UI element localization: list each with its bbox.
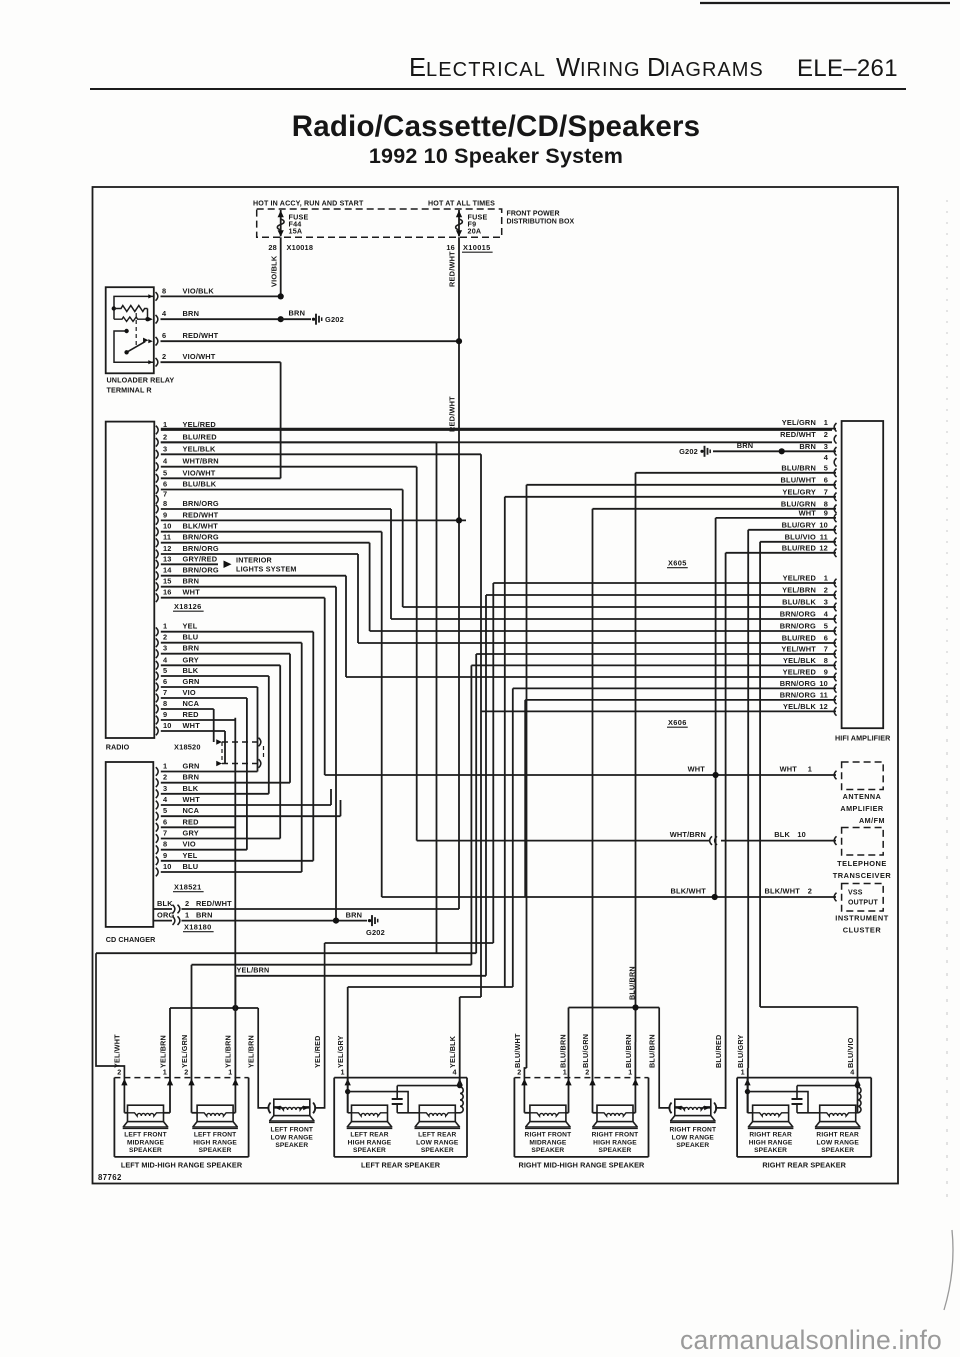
svg-text:SPEAKER: SPEAKER bbox=[275, 1142, 308, 1149]
svg-text:15A: 15A bbox=[289, 227, 303, 236]
svg-text:1: 1 bbox=[741, 1068, 745, 1077]
svg-text:2: 2 bbox=[163, 432, 167, 441]
svg-text:BLU/BRN: BLU/BRN bbox=[558, 1034, 567, 1068]
svg-text:12: 12 bbox=[163, 544, 172, 553]
svg-text:X18521: X18521 bbox=[174, 883, 202, 892]
svg-text:RED: RED bbox=[183, 710, 200, 719]
svg-text:5: 5 bbox=[824, 463, 828, 472]
svg-text:CD CHANGER: CD CHANGER bbox=[106, 935, 156, 944]
svg-text:RIGHT FRONT: RIGHT FRONT bbox=[669, 1127, 716, 1134]
svg-text:ELE–261: ELE–261 bbox=[797, 55, 898, 82]
svg-text:NCA: NCA bbox=[183, 806, 200, 815]
svg-text:4: 4 bbox=[452, 1068, 456, 1077]
svg-text:WHT: WHT bbox=[183, 795, 201, 804]
svg-text:YEL/BLK: YEL/BLK bbox=[448, 1035, 457, 1068]
svg-text:5: 5 bbox=[824, 622, 828, 631]
svg-text:9: 9 bbox=[163, 510, 167, 519]
svg-text:BRN/ORG: BRN/ORG bbox=[183, 499, 219, 508]
svg-text:IAGRAMS: IAGRAMS bbox=[665, 59, 764, 81]
svg-text:VSS: VSS bbox=[848, 890, 863, 897]
svg-text:LOW RANGE: LOW RANGE bbox=[672, 1134, 715, 1141]
svg-text:16: 16 bbox=[446, 243, 455, 252]
svg-text:RADIO: RADIO bbox=[106, 743, 130, 752]
svg-text:1: 1 bbox=[185, 911, 189, 920]
svg-text:YEL/GRN: YEL/GRN bbox=[782, 418, 816, 427]
svg-text:YEL/RED: YEL/RED bbox=[183, 420, 217, 429]
svg-text:BLK/WHT: BLK/WHT bbox=[765, 887, 801, 896]
svg-text:carmanualsonline.info: carmanualsonline.info bbox=[680, 1325, 942, 1355]
svg-text:BLU/BRN: BLU/BRN bbox=[628, 966, 637, 1000]
svg-text:3: 3 bbox=[163, 644, 167, 653]
svg-text:LOW RANGE: LOW RANGE bbox=[817, 1139, 860, 1146]
svg-text:VIO: VIO bbox=[183, 688, 196, 697]
svg-text:WHT: WHT bbox=[183, 721, 201, 730]
svg-text:SPEAKER: SPEAKER bbox=[676, 1142, 709, 1149]
svg-text:9: 9 bbox=[163, 851, 167, 860]
svg-text:DISTRIBUTION BOX: DISTRIBUTION BOX bbox=[507, 219, 575, 226]
svg-text:X605: X605 bbox=[668, 559, 687, 568]
svg-text:1: 1 bbox=[163, 1068, 167, 1077]
svg-text:LEFT REAR: LEFT REAR bbox=[418, 1131, 456, 1138]
svg-text:BLU/GRN: BLU/GRN bbox=[581, 1034, 590, 1068]
svg-text:YEL/GRY: YEL/GRY bbox=[782, 487, 816, 496]
svg-text:14: 14 bbox=[163, 566, 172, 575]
svg-text:4: 4 bbox=[824, 610, 829, 619]
svg-text:SPEAKER: SPEAKER bbox=[199, 1147, 232, 1154]
svg-text:TERMINAL R: TERMINAL R bbox=[107, 386, 153, 395]
svg-text:3: 3 bbox=[824, 598, 828, 607]
svg-text:YEL/BRN: YEL/BRN bbox=[237, 966, 270, 975]
svg-text:13: 13 bbox=[163, 554, 172, 563]
svg-text:WHT/BRN: WHT/BRN bbox=[183, 457, 219, 466]
svg-text:HIGH RANGE: HIGH RANGE bbox=[593, 1139, 637, 1146]
svg-text:X18520: X18520 bbox=[174, 743, 201, 752]
svg-text:10: 10 bbox=[797, 830, 806, 839]
svg-text:BRN: BRN bbox=[183, 309, 200, 318]
svg-text:BLU/WHT: BLU/WHT bbox=[781, 475, 817, 484]
svg-text:9: 9 bbox=[163, 710, 167, 719]
svg-text:HOT IN ACCY, RUN AND START: HOT IN ACCY, RUN AND START bbox=[253, 200, 364, 208]
svg-text:BLU/BRN: BLU/BRN bbox=[624, 1034, 633, 1068]
svg-text:9: 9 bbox=[824, 508, 828, 517]
svg-text:VIO/BLK: VIO/BLK bbox=[270, 255, 279, 287]
svg-text:X10018: X10018 bbox=[287, 243, 314, 252]
svg-text:YEL/RED: YEL/RED bbox=[783, 574, 817, 583]
svg-text:2: 2 bbox=[824, 586, 828, 595]
svg-text:UNLOADER RELAY: UNLOADER RELAY bbox=[107, 376, 175, 385]
svg-text:HIGH RANGE: HIGH RANGE bbox=[193, 1139, 237, 1146]
svg-text:BRN/ORG: BRN/ORG bbox=[780, 690, 816, 699]
svg-text:CLUSTER: CLUSTER bbox=[843, 926, 882, 935]
svg-text:2: 2 bbox=[517, 1068, 521, 1077]
svg-text:RIGHT MID-HIGH RANGE SPEAKER: RIGHT MID-HIGH RANGE SPEAKER bbox=[519, 1161, 646, 1170]
svg-text:G202: G202 bbox=[366, 928, 385, 937]
svg-text:3: 3 bbox=[824, 442, 828, 451]
svg-text:4: 4 bbox=[824, 453, 829, 462]
svg-text:RED/WHT: RED/WHT bbox=[780, 430, 816, 439]
svg-text:LIGHTS SYSTEM: LIGHTS SYSTEM bbox=[236, 565, 297, 574]
svg-text:15: 15 bbox=[163, 577, 172, 586]
svg-text:20A: 20A bbox=[468, 227, 482, 236]
svg-text:7: 7 bbox=[163, 688, 167, 697]
svg-text:YEL/GRN: YEL/GRN bbox=[180, 1035, 189, 1068]
svg-text:GRY/RED: GRY/RED bbox=[183, 554, 218, 563]
svg-text:X18180: X18180 bbox=[184, 923, 212, 932]
svg-text:YEL/BLK: YEL/BLK bbox=[783, 656, 816, 665]
svg-text:BRN/ORG: BRN/ORG bbox=[780, 610, 816, 619]
svg-text:10: 10 bbox=[819, 520, 828, 529]
svg-text:BRN: BRN bbox=[737, 441, 754, 450]
svg-text:8: 8 bbox=[163, 840, 167, 849]
svg-text:BRN: BRN bbox=[183, 577, 200, 586]
svg-text:BLU/BLK: BLU/BLK bbox=[782, 598, 816, 607]
svg-text:10: 10 bbox=[819, 679, 828, 688]
svg-text:LEFT FRONT: LEFT FRONT bbox=[194, 1131, 237, 1138]
svg-text:TRANSCEIVER: TRANSCEIVER bbox=[833, 871, 892, 880]
svg-text:WHT: WHT bbox=[799, 508, 817, 517]
svg-text:28: 28 bbox=[268, 243, 277, 252]
svg-text:VIO: VIO bbox=[183, 840, 196, 849]
svg-text:1: 1 bbox=[824, 574, 828, 583]
svg-text:BRN: BRN bbox=[289, 309, 306, 318]
svg-text:RED/WHT: RED/WHT bbox=[196, 899, 232, 908]
svg-text:GRY: GRY bbox=[183, 829, 199, 838]
svg-text:1992 10 Speaker System: 1992 10 Speaker System bbox=[369, 144, 623, 168]
svg-text:1: 1 bbox=[163, 762, 167, 771]
svg-text:2: 2 bbox=[185, 899, 189, 908]
svg-text:1: 1 bbox=[563, 1068, 567, 1077]
svg-text:YEL/BRN: YEL/BRN bbox=[247, 1035, 256, 1068]
svg-text:87762: 87762 bbox=[98, 1173, 122, 1182]
svg-text:1: 1 bbox=[163, 622, 167, 631]
svg-text:ORG: ORG bbox=[157, 911, 174, 920]
svg-text:W: W bbox=[556, 54, 581, 82]
svg-text:X18126: X18126 bbox=[174, 602, 202, 611]
svg-text:7: 7 bbox=[824, 487, 828, 496]
svg-text:BRN/ORG: BRN/ORG bbox=[780, 679, 816, 688]
svg-text:SPEAKER: SPEAKER bbox=[421, 1147, 454, 1154]
svg-text:4: 4 bbox=[162, 309, 167, 318]
svg-text:LEFT FRONT: LEFT FRONT bbox=[124, 1131, 167, 1138]
svg-text:INTERIOR: INTERIOR bbox=[236, 556, 273, 565]
svg-text:LECTRICAL: LECTRICAL bbox=[426, 59, 546, 81]
svg-text:11: 11 bbox=[820, 532, 828, 541]
svg-text:BLK: BLK bbox=[157, 899, 173, 908]
svg-text:2: 2 bbox=[808, 887, 812, 896]
svg-text:BLU/RED: BLU/RED bbox=[782, 543, 817, 552]
svg-text:2: 2 bbox=[163, 633, 167, 642]
svg-text:VIO/BLK: VIO/BLK bbox=[183, 286, 215, 295]
svg-text:2: 2 bbox=[117, 1068, 121, 1077]
svg-text:YEL/WHT: YEL/WHT bbox=[113, 1034, 122, 1068]
svg-text:AMPLIFIER: AMPLIFIER bbox=[840, 804, 884, 813]
svg-text:G202: G202 bbox=[325, 315, 344, 324]
svg-text:16: 16 bbox=[163, 588, 172, 597]
svg-text:2: 2 bbox=[585, 1068, 589, 1077]
svg-text:11: 11 bbox=[163, 533, 171, 542]
svg-text:BLK/WHT: BLK/WHT bbox=[183, 522, 219, 531]
svg-text:2: 2 bbox=[162, 352, 166, 361]
svg-text:YEL/GRY: YEL/GRY bbox=[336, 1035, 345, 1068]
svg-text:X10015: X10015 bbox=[463, 243, 491, 252]
svg-text:8: 8 bbox=[163, 699, 167, 708]
svg-text:6: 6 bbox=[824, 475, 828, 484]
svg-text:LEFT REAR SPEAKER: LEFT REAR SPEAKER bbox=[361, 1161, 441, 1170]
svg-text:BLK: BLK bbox=[183, 666, 199, 675]
svg-text:E: E bbox=[409, 54, 427, 82]
svg-text:BLU/GRY: BLU/GRY bbox=[736, 1035, 745, 1068]
svg-text:RIGHT REAR SPEAKER: RIGHT REAR SPEAKER bbox=[762, 1161, 846, 1170]
svg-text:YEL: YEL bbox=[183, 851, 198, 860]
svg-text:YEL/BLK: YEL/BLK bbox=[183, 444, 216, 453]
svg-text:BLU/RED: BLU/RED bbox=[183, 432, 218, 441]
svg-text:6: 6 bbox=[163, 480, 167, 489]
svg-text:BLK: BLK bbox=[774, 830, 790, 839]
svg-text:LEFT REAR: LEFT REAR bbox=[350, 1131, 388, 1138]
svg-text:HIFI AMPLIFIER: HIFI AMPLIFIER bbox=[835, 734, 891, 743]
svg-text:10: 10 bbox=[163, 721, 172, 730]
svg-text:BRN/ORG: BRN/ORG bbox=[780, 622, 816, 631]
svg-text:7: 7 bbox=[824, 645, 828, 654]
svg-text:BLU/BRN: BLU/BRN bbox=[648, 1034, 657, 1068]
svg-text:IRING: IRING bbox=[580, 59, 641, 81]
svg-text:SPEAKER: SPEAKER bbox=[531, 1147, 564, 1154]
svg-text:6: 6 bbox=[163, 677, 167, 686]
svg-text:WHT: WHT bbox=[688, 765, 706, 774]
svg-text:RED/WHT: RED/WHT bbox=[183, 510, 219, 519]
svg-text:LEFT MID-HIGH RANGE SPEAKER: LEFT MID-HIGH RANGE SPEAKER bbox=[121, 1161, 243, 1170]
svg-text:4: 4 bbox=[850, 1068, 854, 1077]
svg-text:LOW RANGE: LOW RANGE bbox=[271, 1134, 314, 1141]
svg-text:BLU/VIO: BLU/VIO bbox=[846, 1037, 855, 1068]
svg-text:YEL/BRN: YEL/BRN bbox=[224, 1035, 233, 1068]
svg-text:BLU/GRN: BLU/GRN bbox=[781, 499, 816, 508]
svg-text:8: 8 bbox=[824, 656, 828, 665]
svg-text:5: 5 bbox=[163, 666, 167, 675]
svg-text:7: 7 bbox=[163, 490, 167, 499]
svg-text:BRN: BRN bbox=[183, 773, 200, 782]
svg-text:MIDRANGE: MIDRANGE bbox=[529, 1139, 567, 1146]
svg-text:8: 8 bbox=[163, 499, 167, 508]
svg-text:GRN: GRN bbox=[183, 677, 200, 686]
svg-text:7: 7 bbox=[163, 829, 167, 838]
svg-text:RIGHT FRONT: RIGHT FRONT bbox=[525, 1131, 572, 1138]
svg-text:BLU/VIO: BLU/VIO bbox=[785, 532, 816, 541]
svg-text:YEL/BRN: YEL/BRN bbox=[782, 586, 816, 595]
svg-text:HOT AT ALL TIMES: HOT AT ALL TIMES bbox=[428, 200, 495, 208]
svg-text:RIGHT REAR: RIGHT REAR bbox=[749, 1131, 792, 1138]
svg-text:BLU/WHT: BLU/WHT bbox=[513, 1033, 522, 1068]
svg-text:HIGH RANGE: HIGH RANGE bbox=[348, 1139, 392, 1146]
svg-text:INSTRUMENT: INSTRUMENT bbox=[835, 914, 888, 923]
svg-text:2: 2 bbox=[184, 1068, 188, 1077]
svg-text:RIGHT REAR: RIGHT REAR bbox=[816, 1131, 859, 1138]
svg-text:RED/WHT: RED/WHT bbox=[183, 331, 219, 340]
svg-text:SPEAKER: SPEAKER bbox=[129, 1147, 162, 1154]
svg-text:SPEAKER: SPEAKER bbox=[599, 1147, 632, 1154]
svg-text:WHT/BRN: WHT/BRN bbox=[670, 830, 706, 839]
svg-text:RED/WHT: RED/WHT bbox=[448, 251, 457, 287]
svg-text:12: 12 bbox=[819, 543, 828, 552]
svg-text:5: 5 bbox=[163, 806, 167, 815]
svg-text:YEL/RED: YEL/RED bbox=[783, 668, 817, 677]
svg-text:OUTPUT: OUTPUT bbox=[848, 900, 879, 907]
svg-text:VIO/WHT: VIO/WHT bbox=[183, 468, 216, 477]
svg-text:AM/FM: AM/FM bbox=[859, 816, 885, 825]
svg-text:9: 9 bbox=[824, 668, 828, 677]
svg-text:2: 2 bbox=[824, 430, 828, 439]
svg-text:WHT: WHT bbox=[780, 765, 798, 774]
svg-text:HIGH RANGE: HIGH RANGE bbox=[749, 1139, 793, 1146]
svg-text:RIGHT FRONT: RIGHT FRONT bbox=[592, 1131, 639, 1138]
svg-text:SPEAKER: SPEAKER bbox=[821, 1147, 854, 1154]
svg-text:8: 8 bbox=[824, 499, 828, 508]
svg-text:LEFT FRONT: LEFT FRONT bbox=[271, 1127, 314, 1134]
svg-text:RED: RED bbox=[183, 817, 200, 826]
svg-text:X606: X606 bbox=[668, 718, 687, 727]
svg-text:YEL/BLK: YEL/BLK bbox=[783, 702, 816, 711]
svg-text:6: 6 bbox=[824, 634, 828, 643]
svg-text:6: 6 bbox=[163, 817, 167, 826]
svg-text:FRONT POWER: FRONT POWER bbox=[507, 211, 560, 218]
svg-text:1: 1 bbox=[628, 1068, 632, 1077]
svg-text:BRN: BRN bbox=[799, 442, 816, 451]
svg-text:BLU/RED: BLU/RED bbox=[714, 1035, 723, 1068]
svg-text:4: 4 bbox=[163, 655, 168, 664]
svg-text:BLU/GRY: BLU/GRY bbox=[782, 520, 816, 529]
svg-text:BLU/RED: BLU/RED bbox=[782, 634, 817, 643]
svg-text:BLK/WHT: BLK/WHT bbox=[671, 887, 707, 896]
svg-text:G202: G202 bbox=[679, 447, 698, 456]
svg-text:NCA: NCA bbox=[183, 699, 200, 708]
svg-text:BRN/ORG: BRN/ORG bbox=[183, 533, 219, 542]
svg-text:MIDRANGE: MIDRANGE bbox=[127, 1139, 165, 1146]
svg-text:GRY: GRY bbox=[183, 655, 199, 664]
svg-text:BRN/ORG: BRN/ORG bbox=[183, 566, 219, 575]
svg-text:TELEPHONE: TELEPHONE bbox=[837, 859, 887, 868]
svg-text:1: 1 bbox=[824, 418, 828, 427]
svg-text:10: 10 bbox=[163, 862, 172, 871]
svg-text:SPEAKER: SPEAKER bbox=[353, 1147, 386, 1154]
svg-text:1: 1 bbox=[163, 420, 167, 429]
svg-text:6: 6 bbox=[162, 331, 166, 340]
svg-text:BLU/BLK: BLU/BLK bbox=[183, 480, 217, 489]
svg-text:1: 1 bbox=[228, 1068, 232, 1077]
svg-text:BRN/ORG: BRN/ORG bbox=[183, 544, 219, 553]
svg-text:BLK: BLK bbox=[183, 784, 199, 793]
svg-text:BRN: BRN bbox=[183, 644, 200, 653]
svg-text:10: 10 bbox=[163, 522, 172, 531]
svg-text:YEL/WHT: YEL/WHT bbox=[781, 645, 816, 654]
svg-text:ANTENNA: ANTENNA bbox=[843, 792, 882, 801]
svg-text:11: 11 bbox=[820, 690, 828, 699]
svg-text:3: 3 bbox=[163, 444, 167, 453]
svg-text:LOW RANGE: LOW RANGE bbox=[416, 1139, 459, 1146]
svg-text:BLU: BLU bbox=[183, 633, 199, 642]
svg-text:Radio/Cassette/CD/Speakers: Radio/Cassette/CD/Speakers bbox=[292, 110, 701, 143]
svg-text:RED/WHT: RED/WHT bbox=[448, 396, 457, 432]
svg-text:8: 8 bbox=[162, 286, 166, 295]
svg-text:2: 2 bbox=[163, 773, 167, 782]
svg-text:YEL: YEL bbox=[183, 622, 198, 631]
svg-text:4: 4 bbox=[163, 457, 168, 466]
svg-text:YEL/BRN: YEL/BRN bbox=[158, 1035, 167, 1068]
svg-text:12: 12 bbox=[819, 702, 828, 711]
svg-text:5: 5 bbox=[163, 468, 167, 477]
svg-text:SPEAKER: SPEAKER bbox=[754, 1147, 787, 1154]
svg-text:BLU: BLU bbox=[183, 862, 199, 871]
svg-text:VIO/WHT: VIO/WHT bbox=[183, 352, 216, 361]
svg-text:BLU/BRN: BLU/BRN bbox=[781, 463, 816, 472]
svg-text:BRN: BRN bbox=[196, 911, 213, 920]
svg-text:1: 1 bbox=[808, 765, 812, 774]
svg-text:4: 4 bbox=[163, 795, 168, 804]
svg-text:GRN: GRN bbox=[183, 762, 200, 771]
svg-text:1: 1 bbox=[340, 1068, 344, 1077]
svg-text:WHT: WHT bbox=[183, 588, 201, 597]
svg-text:YEL/RED: YEL/RED bbox=[313, 1035, 322, 1068]
svg-text:BRN: BRN bbox=[346, 911, 363, 920]
svg-text:3: 3 bbox=[163, 784, 167, 793]
